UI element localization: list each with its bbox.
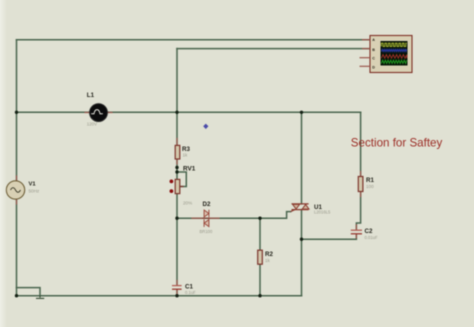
pin stub D2 middle (203, 217, 209, 219)
wire scope B feed (177, 48, 370, 50)
svg-text:B: B (372, 48, 375, 52)
wire triac branch upper (301, 112, 303, 204)
wire R3 branch vertical (176, 49, 178, 146)
svg-text:0.1uF: 0.1uF (185, 290, 196, 295)
maroon pin stubs (17, 113, 361, 294)
pin B stub (362, 48, 370, 50)
wire top rail to scope A (17, 39, 371, 41)
junction R3 branch / L1 row (175, 111, 178, 114)
trace channel B (blue) (381, 49, 407, 51)
svg-text:120V: 120V (87, 122, 97, 127)
wire R1 to C2 (356, 192, 360, 230)
svg-text:L2016L5: L2016L5 (314, 210, 331, 215)
pin stub V1 bottom (16, 199, 18, 204)
svg-text:RV1: RV1 (183, 166, 196, 173)
ground (36, 296, 44, 299)
svg-text:Section for Saftey: Section for Saftey (351, 137, 443, 150)
resistor R3 (175, 145, 180, 159)
svg-text:L1: L1 (87, 92, 95, 99)
pin stub R1 bottom (360, 192, 362, 197)
svg-text:C: C (372, 57, 375, 61)
wire R1 branch upper (360, 112, 362, 176)
junction R2 / gate row (258, 217, 261, 220)
pin A stub (362, 39, 370, 41)
wire main row L1 (17, 111, 361, 113)
junction C1 / bottom rail (175, 294, 178, 297)
junction left rail / L1 row (15, 111, 18, 114)
svg-text:100: 100 (366, 184, 374, 189)
junction RV1 wiper tap (175, 170, 178, 173)
junction left rail / bottom rail (15, 294, 18, 297)
svg-text:R1: R1 (366, 177, 374, 184)
junction triac branch / L1 row (300, 111, 303, 114)
wire gate row D2 (177, 212, 291, 219)
trace channel D (green) (381, 60, 407, 63)
svg-text:D2: D2 (203, 201, 211, 208)
svg-text:1k: 1k (265, 258, 271, 263)
pin stub C2 top (355, 225, 357, 230)
junction R2 / bottom rail (258, 294, 261, 297)
trace channel A (yellow) (381, 43, 407, 46)
node marker RV1 top (red) (170, 180, 174, 184)
svg-text:20%: 20% (183, 201, 192, 206)
wire left rail lower (16, 199, 18, 295)
wire RV1 to gate row and C1 (176, 194, 178, 285)
svg-text:0.01uF: 0.01uF (365, 235, 378, 240)
resistor R2 (258, 250, 263, 264)
node marker origin (blue cross) (203, 124, 208, 129)
node marker RV1 bottom (red) (170, 189, 174, 193)
capacitor C1 (172, 286, 182, 290)
svg-text:BR100: BR100 (200, 229, 213, 234)
wire C2 bottom to triac (302, 234, 357, 239)
wire left rail upper (16, 40, 18, 181)
capacitor C2 (351, 230, 362, 234)
pin stub D2 right (209, 217, 219, 219)
wire ground loop (17, 288, 41, 296)
diac D2 (204, 210, 209, 227)
svg-text:D: D (372, 65, 375, 69)
svg-text:A: A (372, 38, 375, 42)
pin stub R3 top (176, 139, 178, 146)
source V1 (6, 181, 24, 199)
svg-text:1k: 1k (183, 153, 189, 158)
svg-text:50Hz: 50Hz (29, 189, 40, 194)
oscilloscope (360, 36, 413, 73)
trace channel C (red) (381, 55, 407, 59)
wire R2 bottom (259, 264, 261, 296)
pin stub R3 bottom (176, 159, 178, 164)
junction RV1 / gate row (175, 217, 178, 220)
wire between R3 and RV1 (176, 159, 178, 179)
pin C stub (360, 57, 371, 59)
svg-text:V1: V1 (29, 182, 37, 188)
wire RV1 wiper (177, 172, 186, 187)
lamp L1 (90, 104, 108, 122)
junction C2 return / triac branch (300, 238, 303, 241)
junction above RV1 (175, 166, 178, 169)
wire C1 bottom to rail (176, 290, 178, 296)
wire bottom rail (17, 295, 302, 297)
pin stub R1 top (360, 172, 362, 177)
pin D stub (360, 65, 371, 67)
pin stub C1 bottom (176, 290, 178, 294)
pin stub L1 right (107, 112, 112, 114)
svg-text:R2: R2 (265, 251, 273, 258)
wire triac branch lower (301, 210, 303, 296)
resistor R1 (358, 177, 363, 192)
potentiometer RV1 (175, 179, 183, 193)
pin stub C1 top (176, 281, 178, 286)
node junction dots (15, 111, 303, 298)
pin stub D2 left (192, 217, 203, 219)
pin stub C2 bottom (355, 234, 357, 238)
pin stub V1 top (16, 176, 18, 181)
wire R2 branch (259, 218, 261, 250)
triac U1 (291, 204, 309, 212)
pin stub L1 left (85, 112, 90, 114)
